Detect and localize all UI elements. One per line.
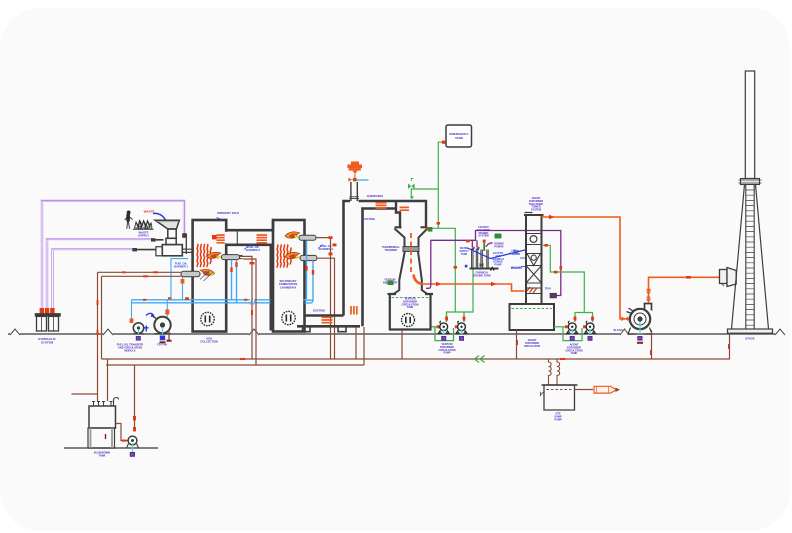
orange recirculation line to tower xyxy=(420,284,525,291)
secondary chamber pass 1 (downcomer) xyxy=(228,245,271,331)
svg-text:SYSTEM: SYSTEM xyxy=(531,209,541,212)
fuel oil pump discharge tee xyxy=(144,326,149,332)
green red flow dots xyxy=(437,222,440,225)
svg-text:GLASS: GLASS xyxy=(512,253,521,256)
ID fan outlet orange riser xyxy=(649,277,723,303)
emergency tank xyxy=(446,125,472,147)
stack flange xyxy=(739,179,762,185)
svg-text:PACKING: PACKING xyxy=(511,267,522,270)
svg-text:SYSTEM: SYSTEM xyxy=(41,341,54,345)
blowdown tank feed drops xyxy=(72,359,135,427)
svg-text:SYSTEM: SYSTEM xyxy=(478,235,488,238)
burner 2 body xyxy=(222,255,243,260)
hydraulic purple line 1 xyxy=(42,201,184,313)
fan inlet valve bowtie xyxy=(622,316,629,321)
agent pump drain markers xyxy=(570,336,593,341)
burner 1 body xyxy=(181,271,200,276)
level gauge green xyxy=(385,281,394,286)
sump corner tick xyxy=(540,392,544,396)
svg-text:WASTE: WASTE xyxy=(144,210,155,214)
vessel1 outlet opening xyxy=(225,232,228,244)
lime feeder green pipe xyxy=(495,234,502,239)
svg-text:SUPPLY: SUPPLY xyxy=(138,234,149,238)
svg-text:CIRCULATOR: CIRCULATOR xyxy=(524,345,540,348)
caustic dosing system label xyxy=(477,226,490,238)
svg-text:ID FAN: ID FAN xyxy=(614,328,623,332)
quench corner green tank box xyxy=(428,227,433,232)
blowdown pump xyxy=(127,436,139,452)
stack base brown drain xyxy=(729,334,731,360)
duct hatch bars G2 xyxy=(257,235,268,243)
purple loop drain valve xyxy=(550,293,557,298)
hydraulic power pack base xyxy=(35,313,61,331)
venturi circulation pump 2 xyxy=(456,321,467,334)
purple recirculation loop xyxy=(426,231,561,296)
venturi circulation pump 1 xyxy=(438,321,449,334)
dosing skid tube top markers xyxy=(472,247,480,250)
stack feed red dot xyxy=(686,276,691,279)
blowdown tank xyxy=(88,406,116,448)
secondary chamber ash damper symbol xyxy=(282,311,295,324)
ram cylinder 1 actuator xyxy=(182,233,186,238)
agent scrubber pump 2 xyxy=(584,321,595,334)
red fittings on burner2 drops xyxy=(230,262,237,272)
header crossing break ticks xyxy=(250,299,254,304)
stack inlet silencer xyxy=(720,268,737,287)
svg-text:DUCTING: DUCTING xyxy=(363,217,375,221)
tower inlet flame strokes xyxy=(526,287,537,293)
svg-text:FD FAN: FD FAN xyxy=(157,343,167,347)
underground header B xyxy=(106,364,364,366)
quench hatch bars G4 xyxy=(400,207,410,210)
svg-text:TANK: TANK xyxy=(571,352,578,355)
dosing to pump suction green drop xyxy=(464,270,473,313)
primary chamber red refractory block xyxy=(212,235,217,239)
sump level dashed xyxy=(547,389,573,391)
venturi pump discharge manifold green xyxy=(432,312,465,341)
FD fan discharge riser xyxy=(166,300,168,317)
venturi gas centerline xyxy=(410,233,412,273)
fan drain stub xyxy=(168,330,170,340)
svg-text:PRIMARY KILN: PRIMARY KILN xyxy=(217,211,239,215)
sump seal coils xyxy=(549,359,560,385)
blowdown tank inner mark xyxy=(105,434,107,439)
dosing skid blue suction line xyxy=(468,248,528,259)
svg-text:TANK: TANK xyxy=(461,253,468,256)
tower packing section xyxy=(526,266,542,284)
quench water valve xyxy=(408,184,415,200)
fuel oil burner1 risers xyxy=(171,259,188,300)
sump outlet arrow to flare xyxy=(575,389,594,391)
blowdown tank nozzles xyxy=(92,398,119,407)
quench box xyxy=(396,201,426,229)
primary chamber hatch bars G1 xyxy=(217,235,226,243)
svg-text:TRAY: TRAY xyxy=(545,288,552,291)
skid transmitter blue marker xyxy=(465,265,468,268)
orange line flow arrows xyxy=(436,282,497,287)
venturi tank level dashes xyxy=(392,297,430,299)
venturi recirculation orange elbow xyxy=(414,275,423,285)
fuel oil burner 3-4 label xyxy=(318,245,323,249)
blowdown outlet pipe xyxy=(116,424,128,441)
red fittings on burner3 drops xyxy=(305,266,314,275)
riser duct xyxy=(344,201,397,326)
burner 3 flame xyxy=(285,232,300,238)
duct thermowell stub xyxy=(236,230,238,244)
venturi throat flange xyxy=(403,247,419,252)
primary chamber refractory squiggles xyxy=(197,244,211,267)
fuel oil burner 2 label xyxy=(244,246,249,250)
svg-text:PUMP: PUMP xyxy=(443,352,451,355)
svg-text:TANK: TANK xyxy=(98,454,105,458)
burner2 diesel drops xyxy=(240,256,257,365)
duct drain risers xyxy=(356,327,364,365)
top duct hatch bars G3 xyxy=(376,203,387,208)
venturi pump manifold red dots xyxy=(437,317,466,329)
stack ladder rungs xyxy=(746,190,754,325)
tower outlet flow arrow xyxy=(549,215,555,220)
bottom transfer duct xyxy=(297,316,360,327)
svg-text:COLLECTION: COLLECTION xyxy=(200,340,218,344)
lower ground line at blowdown pit xyxy=(64,447,158,449)
purple loop red dots xyxy=(466,240,562,270)
diesel pair red flow dashes xyxy=(122,271,158,277)
skid base break mark xyxy=(491,268,495,271)
svg-text:STACK: STACK xyxy=(745,337,754,341)
diesel pair left drop legs xyxy=(98,272,102,401)
burner3 diesel drops xyxy=(316,238,335,359)
green flow chevrons on header xyxy=(475,356,485,363)
svg-text:DOSING TANK: DOSING TANK xyxy=(473,274,491,277)
svg-text:BURNER-2: BURNER-2 xyxy=(246,248,260,252)
burner 4 body xyxy=(300,255,317,260)
emergency stack pipe xyxy=(349,182,359,201)
burner3 diesel elbow fittings xyxy=(250,236,337,264)
tower demister circle xyxy=(530,236,537,243)
underground red flow dashes xyxy=(97,300,731,360)
ID fan drain markers xyxy=(637,336,643,344)
fuel oil transfer pump xyxy=(133,323,144,334)
venturi pump drain markers xyxy=(441,336,464,341)
primary chamber vessel xyxy=(193,220,227,332)
svg-text:TANK: TANK xyxy=(455,136,464,140)
agent scrubber pump 1 xyxy=(567,321,578,334)
svg-text:DUCTING: DUCTING xyxy=(313,309,325,313)
tower drain brown xyxy=(516,330,518,359)
tower green red dots xyxy=(545,244,594,328)
blowdown red dashes xyxy=(122,416,136,442)
dosing pump purple feed drops xyxy=(472,240,492,247)
ID fan xyxy=(627,304,653,335)
bottom duct hatch bars G5 xyxy=(322,317,333,322)
venturi diverging cone xyxy=(394,251,428,294)
fuel oil burner3 drops xyxy=(304,240,314,303)
hydraulic purple line 2 xyxy=(47,239,152,313)
stack support legs xyxy=(732,185,769,330)
waste charge blue arrow xyxy=(153,213,167,225)
svg-text:QUENCHING: QUENCHING xyxy=(367,194,383,198)
svg-text:TANK: TANK xyxy=(407,306,414,309)
stack base xyxy=(728,329,773,333)
crossover duct top xyxy=(226,229,272,232)
primary kiln label with leader xyxy=(217,218,225,221)
burner 4 flame xyxy=(285,252,300,258)
tower tank level dashes xyxy=(512,308,553,310)
svg-text:PUMPS: PUMPS xyxy=(495,245,504,248)
operator figure xyxy=(125,211,133,229)
venturi converging cone xyxy=(395,227,428,247)
venturi circulation tank xyxy=(388,294,434,330)
ground break symbols xyxy=(10,333,783,336)
secondary chamber squiggles xyxy=(277,245,291,268)
svg-text:TRANSMIT: TRANSMIT xyxy=(385,249,398,252)
svg-text:BURNER-3: BURNER-3 xyxy=(319,247,333,251)
hydraulic purple line 3 xyxy=(53,249,134,313)
FD fan xyxy=(153,316,172,334)
red flow dots on cyan header xyxy=(143,297,247,301)
burner 1 flame xyxy=(200,269,215,275)
svg-text:PUMP: PUMP xyxy=(554,418,562,421)
ram feeder housing xyxy=(156,234,193,256)
tower outlet orange to fan xyxy=(542,217,630,319)
tower lower flanges xyxy=(526,288,542,294)
FD fan intake arrow xyxy=(146,313,154,315)
emergency stack stem and relief valve xyxy=(354,174,356,178)
ram cylinder 2 actuator and rod xyxy=(151,238,164,241)
svg-text:PUMP: PUMP xyxy=(495,264,502,267)
svg-text:BURNER-1: BURNER-1 xyxy=(174,265,188,269)
primary chamber ash damper symbol xyxy=(201,312,214,325)
fan discharge valves xyxy=(646,289,651,303)
ground line main xyxy=(8,333,780,335)
underground header A xyxy=(102,358,731,360)
feed hopper xyxy=(155,220,179,229)
burner 2 flame xyxy=(207,252,222,258)
fuel oil pump suction drop xyxy=(131,300,133,319)
fuel oil header cyan lines xyxy=(132,300,314,303)
secondary chamber pass 2 vessel xyxy=(273,220,305,332)
tower spray feed green xyxy=(542,245,593,340)
emergency stack rain cap xyxy=(347,162,362,175)
waste cart xyxy=(133,220,154,229)
fuel oil pump suction fitting xyxy=(130,319,134,324)
fuel oil burner2 drops xyxy=(232,260,237,303)
pump drain markers xyxy=(136,336,166,344)
svg-text:CHAMBER-II: CHAMBER-II xyxy=(280,285,296,289)
hopper chute xyxy=(166,229,176,245)
tower distributor funnel xyxy=(526,254,542,266)
ram cylinder 3 actuator and rod xyxy=(132,248,156,251)
flare torpedo xyxy=(594,386,617,393)
venturi tank drain riser xyxy=(401,330,403,359)
diesel supply pair horizontal xyxy=(98,272,182,276)
fan base brown drain xyxy=(651,330,653,359)
purge cyan line xyxy=(357,179,369,181)
burner 3 body xyxy=(299,235,316,240)
stack upper pipe xyxy=(745,71,754,179)
tower base tank xyxy=(510,304,555,330)
ETP sump tank xyxy=(542,385,578,410)
svg-text:MODULE: MODULE xyxy=(124,349,136,353)
packed tower column xyxy=(524,213,544,305)
riser duct hatch bars G6 xyxy=(351,306,357,315)
hydraulic manifold red couplers xyxy=(40,308,55,313)
venturi tank damper symbol xyxy=(402,314,415,327)
blowdown pump drain marker xyxy=(130,452,135,457)
chemical dosing skid xyxy=(470,249,499,269)
stack lattice mast xyxy=(746,185,754,330)
emergency tank outlet red dot xyxy=(442,141,446,144)
quench water green line xyxy=(411,142,455,311)
